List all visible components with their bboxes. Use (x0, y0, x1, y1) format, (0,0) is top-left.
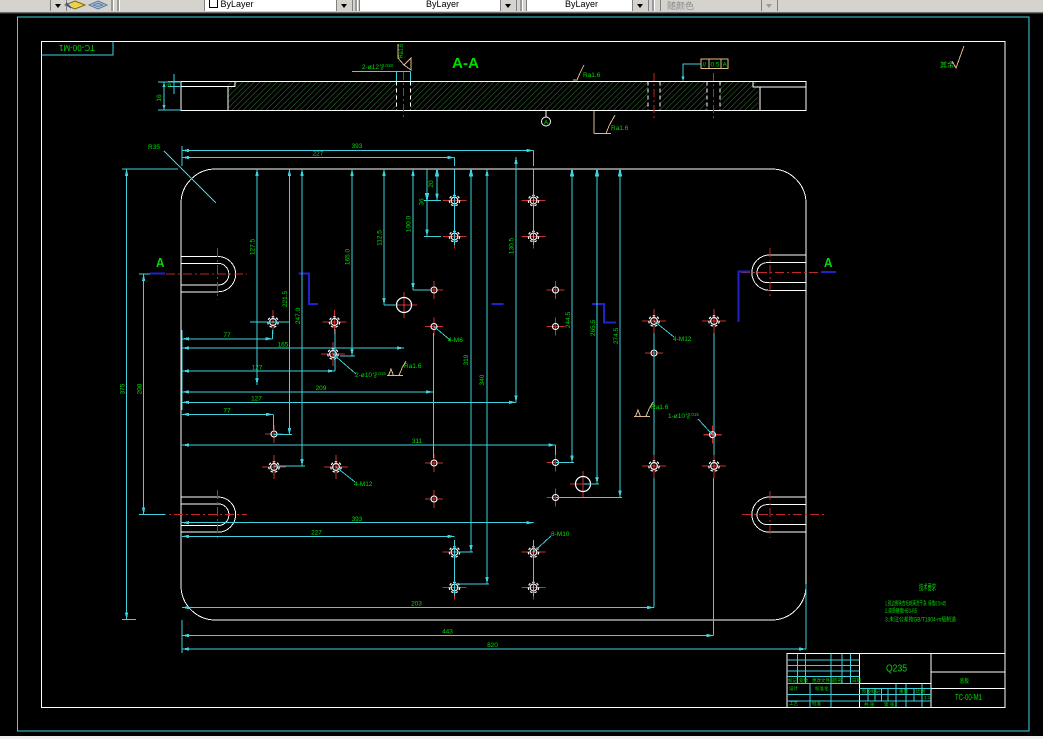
svg-text:130.5: 130.5 (509, 237, 516, 254)
dim 200 far left (139, 274, 165, 514)
notch top-left outer (181, 257, 236, 292)
ext col 714 (713, 333, 715, 455)
dim 6 left lip (166, 74, 181, 94)
left lip strip (181, 82, 235, 87)
dim 77 mid (182, 330, 273, 339)
notch bottom-left outer (181, 497, 236, 532)
blue mark segment mid (492, 303, 504, 305)
dim 77 second (182, 414, 274, 430)
hole M (454.5,552) (443, 540, 467, 564)
svg-text:3.未注公差按GB/T1804-m级制造: 3.未注公差按GB/T1804-m级制造 (885, 616, 956, 624)
svg-text:技术要求: 技术要求 (919, 582, 936, 592)
hole M12 (454.5,236.5) (443, 225, 467, 249)
hole small (434,499) (425, 490, 443, 508)
svg-text:393: 393 (352, 516, 363, 523)
svg-text:127.5: 127.5 (250, 238, 257, 255)
svg-text:203: 203 (411, 601, 422, 608)
svg-text:319: 319 (463, 354, 470, 365)
notch top-right outer (752, 255, 806, 290)
hole M (714,321) (702, 309, 726, 333)
svg-text:274.5: 274.5 (613, 327, 620, 344)
svg-text:1.锐边倒钝去毛刺清洗干净, 棱角0.5×45: 1.锐边倒钝去毛刺清洗干净, 棱角0.5×45 (885, 600, 946, 608)
svg-text:第 张: 第 张 (884, 701, 895, 708)
dim 265.5 vertical (584, 169, 599, 484)
svg-text:共 张: 共 张 (864, 701, 875, 708)
hole small (434,290) (425, 281, 443, 299)
datum A symbol below bar (542, 111, 551, 127)
section hatch body (228, 82, 758, 110)
svg-text:6: 6 (166, 83, 173, 87)
hole M 4-M12 (654,321) (642, 309, 666, 333)
dim 127.5 vertical (250, 169, 290, 385)
hole small (654,353) (645, 344, 663, 362)
svg-text:Q235: Q235 (886, 664, 907, 675)
dim 820 bottom (182, 584, 806, 649)
svg-text:A: A (544, 120, 549, 127)
svg-text:A: A (156, 256, 165, 270)
hole M (454.5,587.5) (443, 576, 467, 600)
svg-text:更改文件号: 更改文件号 (812, 677, 835, 684)
dim 227 lower (182, 535, 455, 537)
section hole 3 centerline (713, 73, 715, 120)
svg-text:127: 127 (252, 365, 263, 372)
hole small (555.5,462.5) (547, 454, 565, 472)
svg-text:R35: R35 (148, 144, 160, 151)
ext line left edge top (181, 146, 183, 166)
hole M (714,466) (702, 454, 726, 478)
title block outer border (787, 654, 1005, 708)
layer icon blue (88, 0, 109, 11)
ext col 654 top (653, 333, 655, 455)
dim 247.0 vertical (274, 169, 305, 466)
svg-text:820: 820 (487, 642, 498, 649)
leader 4-M6 (434, 327, 450, 341)
dim 244.5 vertical (556, 169, 574, 463)
blue mark left of top-right notch (739, 272, 751, 323)
dim 100.0 vertical (413, 169, 430, 290)
hole small (434,463) (425, 454, 443, 472)
dim 443 bottom (182, 478, 714, 636)
hole M (334.5,322) (323, 310, 347, 334)
parallelism tolerance frame (701, 59, 728, 69)
svg-text:A: A (824, 256, 833, 270)
svg-text:Ra1.6: Ra1.6 (583, 72, 601, 79)
svg-text:标记: 标记 (788, 677, 797, 684)
right pocket (760, 87, 806, 111)
svg-text:TC-00-M1: TC-00-M1 (58, 43, 95, 52)
dim 165 mid (182, 347, 404, 349)
svg-text:340: 340 (479, 374, 486, 385)
svg-text:阶段标记: 阶段标记 (862, 688, 880, 695)
notch bottom-right centerlines (742, 491, 824, 538)
svg-text:221.5: 221.5 (282, 290, 289, 307)
leader 1-ø10 (698, 419, 713, 435)
svg-text:209: 209 (316, 385, 327, 392)
svg-text:4-M12: 4-M12 (673, 336, 692, 343)
svg-text:重量: 重量 (899, 688, 908, 695)
toolbar separator (111, 0, 114, 11)
dim 319 vertical (455, 169, 473, 552)
svg-text:165.0: 165.0 (345, 248, 352, 265)
hole small (555.5,290) (547, 281, 565, 299)
dim 127 mid (182, 329, 335, 371)
hole M12 (454.5,200.5) (443, 189, 467, 213)
svg-text:200: 200 (137, 383, 144, 394)
svg-text:36: 36 (419, 198, 426, 206)
dim 165.0 vertical (340, 169, 355, 356)
svg-text:112.5: 112.5 (377, 230, 384, 246)
surface note 其余 + check top right (940, 46, 964, 69)
svg-text:16: 16 (156, 94, 163, 102)
hole M 4-M12b (336,467) (324, 455, 348, 479)
svg-text://: // (703, 62, 707, 69)
material cell Q235 border (860, 683, 932, 685)
svg-text:A-A: A-A (452, 56, 480, 72)
hole small 4-M6 (434,326.5) (425, 318, 443, 336)
blue mark left of top-left notch (150, 273, 165, 275)
svg-text:处数: 处数 (799, 677, 808, 684)
svg-text:227: 227 (311, 530, 322, 537)
notch bottom-right outer (752, 497, 806, 532)
notch top-right centerlines (741, 248, 824, 297)
hole M12 (533.5,200.5) (522, 189, 546, 213)
section hole 2 centerline (653, 73, 655, 120)
ext line left edge mid (181, 330, 183, 410)
svg-text:1:1: 1:1 (924, 695, 931, 700)
svg-text:2.调质硬度HB3-R5: 2.调质硬度HB3-R5 (885, 607, 917, 615)
title block main verticals (859, 654, 861, 708)
notch bottom-left inner (181, 504, 229, 526)
svg-text:底板: 底板 (960, 677, 969, 685)
ext line left edge bottom (181, 620, 183, 653)
dim 311 (182, 445, 556, 455)
tolerance leader (681, 64, 701, 82)
svg-text:Ra1.6: Ra1.6 (398, 44, 405, 58)
roughness Ra1.6 near 1-ø10 (634, 402, 669, 417)
hole small (274,434) (265, 425, 283, 443)
svg-text:443: 443 (442, 629, 453, 636)
svg-text:工艺: 工艺 (789, 701, 798, 706)
rotated roughness flag at hole (398, 44, 411, 70)
dim 375 far left (122, 169, 178, 619)
ext line col 533.5 (533, 169, 535, 596)
svg-text:77: 77 (223, 332, 231, 339)
svg-text:批准: 批准 (812, 700, 821, 707)
svg-text:4-M12: 4-M12 (354, 481, 373, 488)
plate outline rounded rect (181, 169, 806, 620)
hole big (583,484) (570, 471, 596, 497)
dim 274.5 vertical (556, 169, 622, 498)
dim 20 vertical (436, 169, 438, 201)
section hole 2 edges (648, 82, 660, 111)
svg-text:A: A (723, 62, 728, 69)
left grid horizontals (787, 660, 860, 701)
notch top-left centerlines (166, 248, 247, 300)
dim 393 lower (182, 522, 534, 524)
plot style combo disabled (660, 0, 778, 12)
hole small (555.5,497.5) (547, 489, 565, 507)
dim 127b mid (182, 401, 516, 403)
svg-text:TC-00-M1: TC-00-M1 (955, 692, 982, 702)
section hole 1 edges (397, 82, 411, 111)
svg-text:Ra1.6: Ra1.6 (611, 125, 629, 132)
hole M (274,467) (262, 455, 286, 479)
Ra1.6 above bar (573, 65, 601, 80)
lineweight combo ByLayer (526, 0, 649, 12)
svg-text:247.0: 247.0 (295, 307, 302, 324)
blue mark right of top-right notch (821, 271, 836, 273)
left pocket (181, 87, 228, 111)
svg-text:77: 77 (223, 408, 231, 415)
dim 221.5 vertical (274, 169, 292, 435)
blue stair mark right of top-left notch (299, 274, 319, 305)
svg-text:设计: 设计 (789, 685, 798, 692)
right section rows (931, 671, 1005, 673)
leader 4-M12 top (654, 321, 674, 337)
svg-text:Ra1.6: Ra1.6 (404, 363, 422, 370)
hole M12 (533.5,236.5) (522, 225, 546, 249)
label 2-ø12 tolerance (352, 63, 411, 81)
hole M (273,322) (261, 310, 285, 334)
dim 112.5 vertical (384, 169, 398, 305)
svg-text:4-M6: 4-M6 (448, 337, 463, 344)
svg-text:签名: 签名 (833, 677, 842, 684)
notch bottom-left centerlines (140, 490, 247, 540)
leader 2-ø10 (333, 354, 356, 374)
R35 label and leader (148, 144, 216, 203)
mid lower grid (860, 684, 932, 708)
dim 227 top (182, 158, 455, 167)
roughness Ra1.6 near 2-ø10 (387, 361, 422, 376)
blue stair mark mid-right (592, 304, 616, 323)
svg-text:Ra1.6: Ra1.6 (651, 404, 669, 411)
dim 36 vertical (424, 169, 441, 237)
hole M 2-ø10 (333,354) (321, 342, 345, 366)
dim 340 vertical (455, 169, 489, 584)
toolbar strip (0, 0, 1043, 11)
leader 4-M12 lower (336, 467, 355, 482)
left grid verticals (798, 654, 851, 708)
svg-text:标准化: 标准化 (815, 685, 829, 692)
svg-text:比例: 比例 (916, 688, 925, 695)
svg-text:0.5: 0.5 (711, 62, 720, 69)
dim 16 left of section (156, 82, 181, 110)
tiny green labels left grid (788, 677, 931, 708)
svg-text:244.5: 244.5 (565, 311, 572, 328)
section hole 3 edges (707, 82, 720, 111)
svg-text:375: 375 (120, 383, 127, 394)
dim 209 mid (182, 333, 434, 458)
notch top-right inner (757, 263, 806, 283)
hole M 8-M10 (533.5,552) (522, 540, 546, 564)
ext line col 454.5 (454, 169, 456, 596)
section bar outline (181, 82, 806, 111)
hole small (555.5,326.5) (547, 318, 565, 336)
section hole 1 centerline (403, 72, 405, 120)
svg-text:265.5: 265.5 (590, 319, 597, 336)
svg-text:393: 393 (352, 143, 363, 150)
hole M (533.5,587.5) (522, 576, 546, 600)
leader 8-M10 (534, 536, 552, 552)
svg-text:127: 127 (251, 396, 262, 403)
dim 130.5 vertical (515, 157, 517, 402)
hole big (404,305) (391, 292, 417, 318)
dim 203 bottom (182, 478, 654, 608)
svg-text:165: 165 (278, 342, 289, 349)
hole M (654,466) (642, 454, 666, 478)
right lip strip (753, 82, 806, 88)
notch top-left inner (181, 263, 229, 285)
svg-text:311: 311 (412, 438, 423, 445)
Ra1.6 below bar with leader (594, 111, 629, 134)
color combo ByLayer (204, 0, 352, 12)
drawing number box TC-00-M1 (42, 42, 114, 56)
hole small 1-ø10 (712.5,434.7) (704, 426, 722, 444)
svg-text:100.0: 100.0 (406, 215, 413, 232)
layer combo arrow (50, 0, 67, 12)
linetype combo ByLayer (359, 0, 516, 12)
svg-text:227: 227 (313, 151, 324, 158)
layer icon yellow (64, 0, 87, 11)
svg-text:20: 20 (428, 180, 435, 188)
notch bottom-right inner (757, 505, 806, 525)
svg-text:8-M10: 8-M10 (551, 531, 570, 538)
dim 393 top (182, 151, 534, 167)
